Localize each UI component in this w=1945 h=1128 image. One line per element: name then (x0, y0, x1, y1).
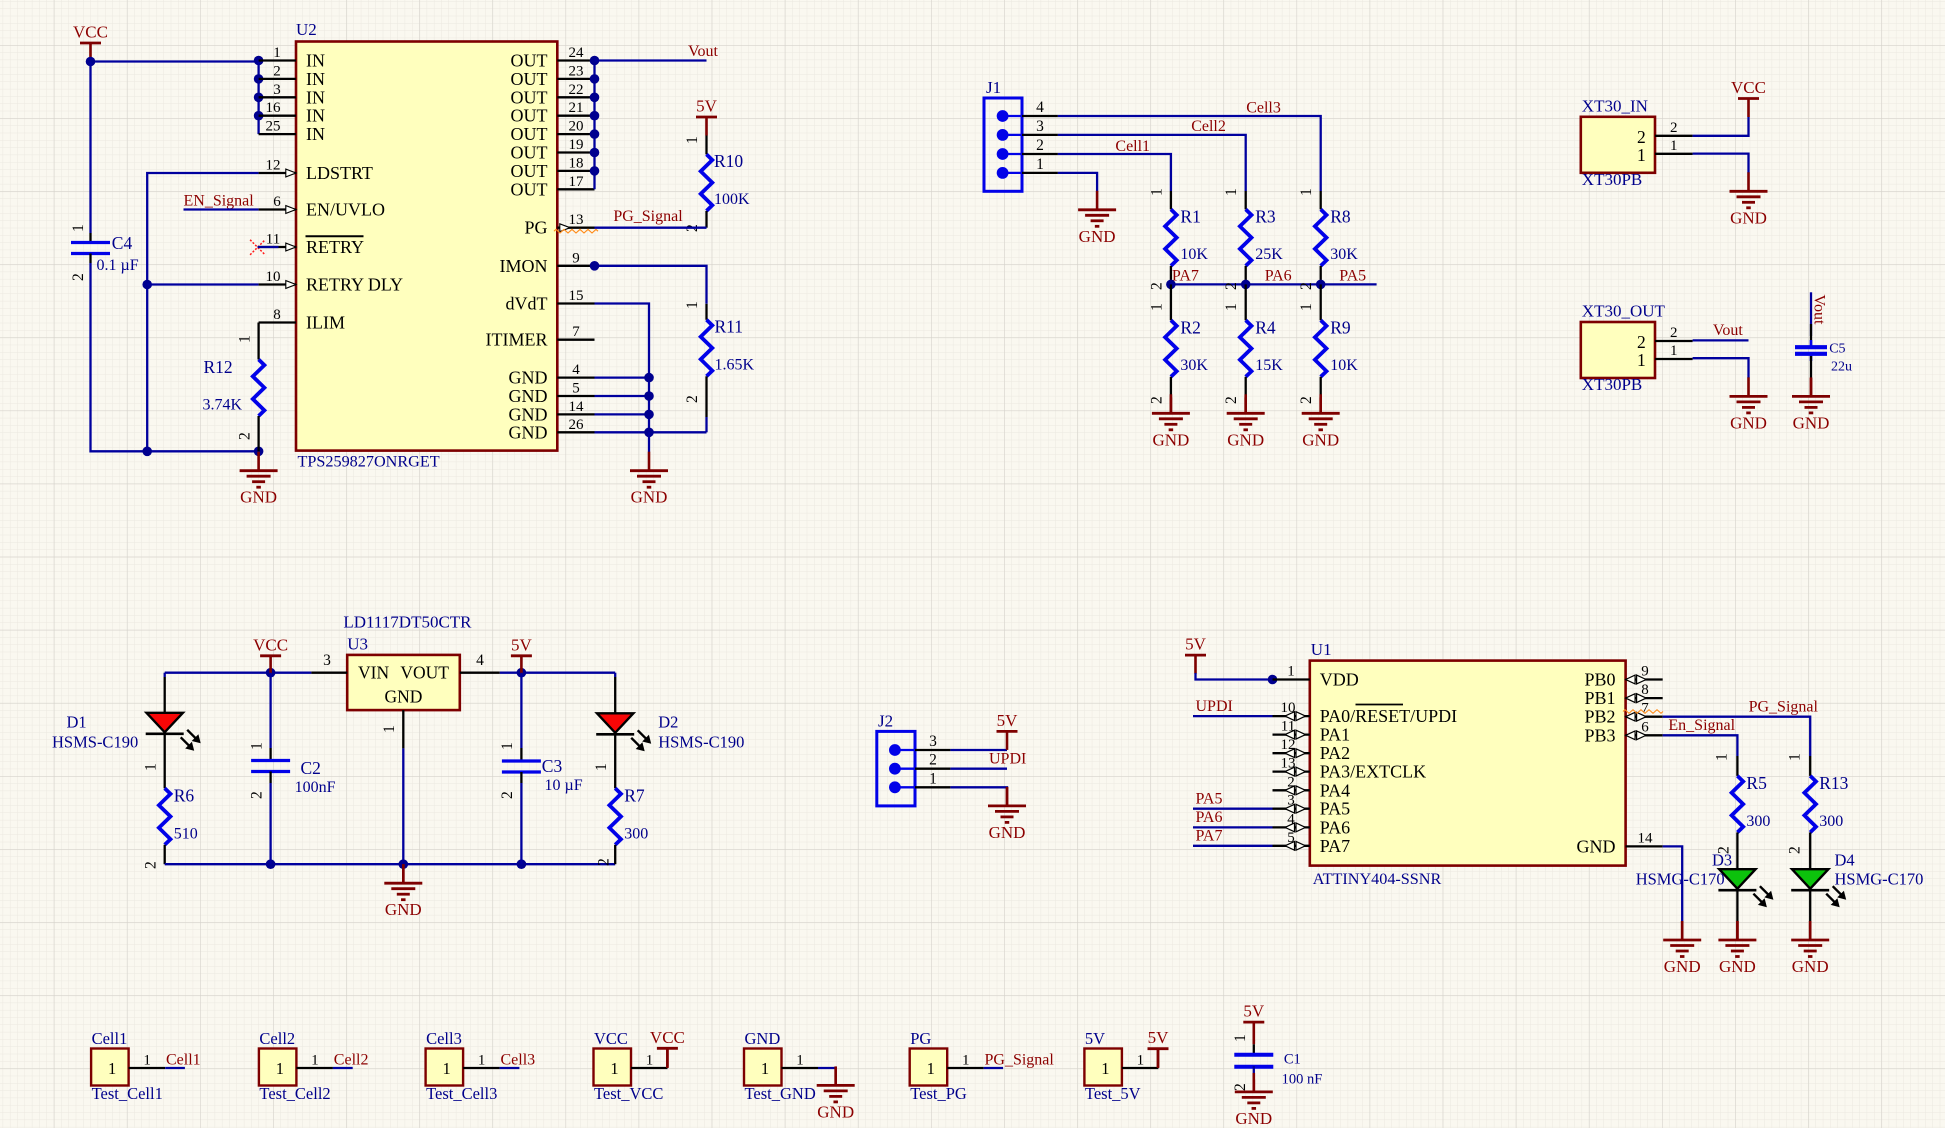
svg-text:1: 1 (1137, 1053, 1145, 1069)
svg-text:R2: R2 (1180, 317, 1200, 337)
svg-text:1: 1 (1670, 343, 1678, 359)
wire J2 pin3 to 5V (950, 749, 1007, 751)
svg-text:1: 1 (108, 1059, 116, 1078)
no connect X on RETRY (250, 240, 265, 255)
bidirectional arrow (1626, 694, 1647, 703)
svg-text:1: 1 (962, 1053, 970, 1069)
resistor R7 (614, 734, 616, 788)
bidirectional arrow (1626, 712, 1647, 721)
svg-text:2: 2 (1148, 396, 1165, 404)
svg-text:EN/UVLO: EN/UVLO (306, 200, 385, 220)
LED D3 (1718, 869, 1773, 907)
svg-text:2: 2 (1298, 396, 1315, 404)
svg-text:5V: 5V (696, 97, 718, 116)
svg-text:PB3: PB3 (1584, 725, 1615, 745)
svg-text:R8: R8 (1330, 206, 1351, 226)
svg-text:Test_Cell2: Test_Cell2 (259, 1084, 330, 1103)
svg-text:Cell1: Cell1 (92, 1029, 128, 1048)
U2 pin 6 EN/UVLO (259, 194, 385, 220)
svg-text:U2: U2 (296, 20, 317, 39)
svg-text:IN: IN (306, 124, 325, 144)
svg-text:1: 1 (796, 1053, 804, 1069)
svg-text:15K: 15K (1255, 357, 1283, 374)
svg-text:2: 2 (1787, 846, 1804, 854)
RESET overline (1356, 704, 1404, 706)
svg-text:PA5: PA5 (1196, 790, 1223, 807)
svg-text:6: 6 (1641, 719, 1649, 735)
svg-text:GND: GND (1730, 413, 1767, 432)
svg-text:R3: R3 (1255, 206, 1276, 226)
wire D4 to ground (1809, 890, 1811, 921)
U2 pin 12 LDSTRT (259, 158, 373, 184)
junction IN bus (254, 93, 264, 103)
svg-text:C4: C4 (112, 233, 133, 253)
svg-text:2: 2 (1637, 127, 1646, 147)
svg-text:1.65K: 1.65K (715, 357, 755, 374)
U2 pin 7 ITIMER (486, 324, 595, 350)
svg-text:PA3/EXTCLK: PA3/EXTCLK (1320, 762, 1426, 782)
U2 pin 2 IN (259, 63, 325, 89)
svg-text:2: 2 (1148, 282, 1165, 290)
svg-text:C5: C5 (1829, 341, 1845, 356)
wire PG_Signal (595, 227, 707, 229)
svg-text:PB1: PB1 (1584, 688, 1615, 708)
svg-text:2: 2 (1670, 325, 1678, 341)
ground at XT30_IN (1730, 172, 1768, 227)
U1 pin 4 PA6 (1273, 811, 1351, 837)
svg-text:2: 2 (1223, 282, 1240, 290)
U2 pin 13 PG (524, 212, 594, 238)
output arrow PG (560, 224, 570, 232)
svg-text:PA1: PA1 (1320, 725, 1350, 745)
svg-text:12: 12 (266, 158, 281, 174)
bidirectional arrow (1285, 749, 1306, 758)
svg-text:GND: GND (1577, 836, 1616, 856)
svg-text:PG_Signal: PG_Signal (1749, 699, 1819, 716)
wire D3 to ground (1736, 890, 1738, 921)
wire 5V to VDD (1196, 673, 1273, 680)
svg-text:HSMG-C170: HSMG-C170 (1636, 870, 1725, 889)
svg-text:2: 2 (1036, 137, 1044, 154)
svg-text:30K: 30K (1330, 246, 1358, 263)
svg-text:VIN: VIN (358, 663, 389, 683)
svg-text:10K: 10K (1330, 357, 1358, 374)
svg-text:LD1117DT50CTR: LD1117DT50CTR (343, 613, 472, 632)
svg-text:1: 1 (1148, 303, 1165, 311)
svg-text:1: 1 (70, 224, 87, 232)
junction IN bus (254, 111, 264, 121)
capacitor C3 (520, 673, 522, 748)
svg-text:LDSTRT: LDSTRT (306, 163, 373, 183)
svg-text:OUT: OUT (511, 179, 548, 199)
U2 pin 23 OUT (511, 63, 595, 89)
svg-text:PA4: PA4 (1320, 780, 1350, 800)
U2 pin 18 OUT (511, 155, 595, 181)
U2 pin 26 GND (509, 417, 595, 443)
connector J2 (877, 712, 951, 806)
svg-text:GND: GND (989, 823, 1026, 842)
svg-text:3: 3 (929, 733, 937, 750)
ground under U1 (1681, 921, 1684, 940)
svg-text:Cell3: Cell3 (426, 1029, 462, 1048)
U2 pin 20 OUT (511, 119, 595, 145)
ground under D3 (1736, 921, 1739, 940)
svg-text:PA6: PA6 (1196, 809, 1223, 826)
svg-text:17: 17 (569, 174, 585, 190)
junction bottom rail (399, 859, 409, 869)
junction PA7 (1166, 280, 1176, 290)
svg-text:1: 1 (684, 301, 701, 309)
ground under J2 (1006, 787, 1009, 806)
svg-text:1: 1 (143, 1053, 151, 1069)
wire IMON to R11 (595, 266, 707, 304)
bottom rail LDO (165, 863, 616, 865)
svg-text:2: 2 (273, 63, 281, 79)
svg-text:Test_GND: Test_GND (745, 1084, 816, 1103)
svg-text:PA7: PA7 (1196, 828, 1223, 845)
wire J2 pin2 UPDI (950, 768, 1007, 770)
svg-text:100 nF: 100 nF (1282, 1072, 1323, 1088)
svg-text:4: 4 (1036, 99, 1044, 116)
svg-text:Cell2: Cell2 (259, 1029, 295, 1048)
svg-text:TPS259827ONRGET: TPS259827ONRGET (298, 453, 440, 471)
svg-text:IMON: IMON (500, 256, 548, 276)
U2 pin 24 OUT (511, 45, 595, 71)
junction at VCC stem (86, 57, 96, 67)
svg-text:OUT: OUT (511, 51, 548, 71)
wire PA7-PA6-PA5 rail (1171, 283, 1377, 285)
U2 pin 8 ILIM (259, 307, 345, 333)
svg-text:IN: IN (306, 51, 325, 71)
U2 pin 25 IN (259, 119, 325, 145)
wire XT30_IN pin1 to GND (1693, 154, 1749, 173)
svg-text:R5: R5 (1746, 773, 1767, 793)
svg-text:Test_PG: Test_PG (910, 1084, 967, 1103)
wire J2 pin1 to GND (950, 787, 1007, 789)
svg-text:RETRY DLY: RETRY DLY (306, 275, 403, 295)
svg-text:2: 2 (70, 273, 87, 281)
svg-text:VOUT: VOUT (400, 663, 449, 683)
resistor R8 (1320, 191, 1322, 209)
U1 pin 5 PA7 (1273, 830, 1351, 856)
svg-text:22u: 22u (1831, 359, 1852, 374)
svg-text:U1: U1 (1311, 640, 1332, 659)
svg-text:GND: GND (1302, 430, 1339, 449)
resistor R11 (705, 304, 707, 320)
svg-text:J1: J1 (986, 78, 1001, 97)
svg-text:XT30_OUT: XT30_OUT (1582, 302, 1666, 321)
svg-text:1: 1 (442, 1059, 450, 1078)
svg-text:U3: U3 (347, 635, 368, 654)
resistor R12 (257, 323, 259, 360)
junction RETRY DLY (142, 280, 152, 290)
wire GND pin 14 (595, 413, 650, 415)
svg-text:2: 2 (1637, 332, 1646, 352)
wire Cell1 (1058, 154, 1171, 191)
svg-text:dVdT: dVdT (506, 294, 548, 314)
U1 pin 6 PB3 (1584, 719, 1662, 745)
junction VDD (1268, 675, 1278, 685)
junction bottom rail (266, 859, 276, 869)
wire GND pin 4 (595, 376, 650, 378)
svg-text:2: 2 (1223, 396, 1240, 404)
LED D1 (164, 673, 166, 677)
bidirectional arrow (1285, 712, 1306, 721)
svg-text:VCC: VCC (650, 1028, 685, 1047)
svg-text:XT30PB: XT30PB (1582, 170, 1642, 189)
resistor R13 (1809, 756, 1811, 776)
svg-text:2: 2 (499, 791, 516, 799)
svg-text:PB2: PB2 (1584, 707, 1615, 727)
svg-text:Vout: Vout (1811, 295, 1828, 325)
bidirectional arrow (1285, 767, 1306, 776)
svg-text:19: 19 (569, 137, 584, 153)
svg-text:HSMS-C190: HSMS-C190 (658, 733, 744, 752)
svg-text:24: 24 (569, 45, 585, 61)
svg-text:C2: C2 (301, 758, 321, 778)
svg-text:1: 1 (1036, 156, 1044, 173)
svg-text:9: 9 (572, 250, 580, 266)
svg-text:5V: 5V (1185, 635, 1207, 654)
OUT bus vertical (593, 61, 595, 190)
svg-text:GND: GND (745, 1029, 781, 1048)
svg-text:1: 1 (1714, 753, 1731, 761)
svg-text:IN: IN (306, 87, 325, 107)
svg-text:ITIMER: ITIMER (486, 330, 548, 350)
test point Test_Cell3 (426, 1029, 500, 1103)
U1 pin 12 PA2 (1273, 737, 1351, 763)
test point Test_Cell2 (259, 1029, 333, 1103)
svg-text:Test_Cell1: Test_Cell1 (92, 1084, 163, 1103)
junction OUT bus (590, 56, 600, 66)
wire + net label Cell3 (500, 1067, 520, 1069)
svg-text:22: 22 (569, 82, 584, 98)
svg-text:GND: GND (509, 386, 548, 406)
svg-text:25: 25 (266, 119, 281, 135)
U2 pin 1 IN (259, 45, 325, 71)
svg-text:300: 300 (1819, 813, 1843, 830)
connector XT30_OUT (1581, 302, 1693, 395)
svg-text:ILIM: ILIM (306, 313, 345, 333)
svg-text:2: 2 (684, 395, 701, 403)
svg-text:1: 1 (276, 1059, 284, 1078)
power flag VCC at XT30_IN (1731, 78, 1766, 117)
wire En_Signal to R5 (1663, 735, 1738, 756)
svg-text:10K: 10K (1180, 246, 1208, 263)
LED D4 (1791, 869, 1846, 907)
power flag 5V at U3 (511, 635, 533, 674)
resistor R9 (1320, 284, 1322, 320)
svg-text:GND: GND (1227, 430, 1264, 449)
wire UPDI to PA0 (1193, 715, 1273, 717)
wire U3 GND down (402, 748, 404, 864)
svg-text:PA5: PA5 (1339, 268, 1366, 285)
IC U1 ATTINY404-SSNR body (1310, 661, 1626, 866)
resistor R6 (164, 734, 166, 789)
bidirectional arrow (1285, 786, 1306, 795)
svg-text:OUT: OUT (511, 161, 548, 181)
input arrow (286, 169, 296, 177)
U2 pin 15 dVdT (506, 288, 595, 314)
svg-text:OUT: OUT (511, 106, 548, 126)
test point Test_PG (910, 1029, 984, 1103)
svg-text:UPDI: UPDI (989, 751, 1026, 768)
svg-text:1: 1 (1223, 303, 1240, 311)
U3 pin 3 (311, 672, 347, 674)
svg-text:3.74K: 3.74K (203, 397, 243, 414)
U1 pin 13 PA3/EXTCLK (1273, 756, 1427, 782)
svg-text:PG_Signal: PG_Signal (985, 1052, 1055, 1069)
connector J1 (984, 78, 1058, 191)
junction PA6 (1241, 280, 1251, 290)
svg-text:XT30PB: XT30PB (1582, 375, 1642, 394)
svg-text:HSMS-C190: HSMS-C190 (52, 733, 138, 752)
svg-text:XT30_IN: XT30_IN (1582, 96, 1648, 115)
svg-text:VDD: VDD (1320, 670, 1359, 690)
wire PA7 (1193, 845, 1273, 847)
U2 pin 22 OUT (511, 82, 595, 108)
ground under C1 (1253, 1080, 1256, 1092)
ground at XT30_OUT (1730, 377, 1768, 432)
svg-text:UPDI: UPDI (1196, 698, 1233, 715)
svg-text:VCC: VCC (1731, 78, 1766, 97)
power flag VCC at test point (666, 1048, 669, 1068)
svg-text:En_Signal: En_Signal (1668, 717, 1735, 734)
svg-text:18: 18 (569, 155, 584, 171)
svg-text:EN_Signal: EN_Signal (184, 192, 255, 209)
U2 pin 9 IMON (500, 250, 595, 276)
svg-text:25K: 25K (1255, 246, 1283, 263)
svg-text:Vout: Vout (688, 43, 718, 60)
U1 pin 9 PB0 (1584, 664, 1662, 690)
U3 pin 4 (460, 672, 500, 674)
ground at Test_GND (834, 1068, 837, 1085)
U1 pin 1 VDD (1273, 664, 1359, 690)
wire + net label Cell1 (165, 1067, 185, 1069)
svg-text:R12: R12 (204, 357, 233, 377)
wire Cell3 (1058, 116, 1321, 191)
svg-text:1: 1 (1670, 138, 1678, 154)
ground under D4 (1809, 921, 1812, 940)
capacitor C1 (1253, 1040, 1256, 1044)
svg-text:Cell1: Cell1 (166, 1052, 201, 1069)
wire RETRY DLY (147, 283, 258, 285)
svg-text:13: 13 (569, 212, 584, 228)
svg-text:PB0: PB0 (1584, 670, 1615, 690)
svg-text:15: 15 (569, 288, 584, 304)
svg-text:1: 1 (1232, 1034, 1249, 1042)
svg-text:R10: R10 (714, 151, 743, 171)
capacitor C4 (71, 243, 110, 254)
svg-text:Cell3: Cell3 (501, 1052, 536, 1069)
svg-text:100nF: 100nF (295, 779, 336, 796)
compile marker on PG pin (554, 229, 598, 233)
test point Test_GND (744, 1029, 818, 1103)
svg-text:VCC: VCC (594, 1029, 628, 1048)
svg-text:R13: R13 (1819, 773, 1848, 793)
U2 pin 19 OUT (511, 137, 595, 163)
svg-text:1: 1 (478, 1053, 486, 1069)
wire U1 GND (1663, 846, 1683, 921)
svg-text:PG: PG (910, 1029, 931, 1048)
svg-text:7: 7 (1641, 701, 1649, 717)
U2 pin 10 RETRY DLY (259, 269, 403, 295)
svg-text:5V: 5V (1243, 1002, 1265, 1021)
wire GND rail bottom (595, 431, 707, 433)
wire XT30_OUT pin2 Vout (1693, 339, 1749, 341)
wire J1 pin1 to ground (1058, 173, 1097, 192)
svg-text:8: 8 (273, 307, 281, 323)
junction OUT bus (590, 148, 600, 158)
svg-text:GND: GND (817, 1102, 854, 1121)
resistor R4 (1245, 284, 1247, 320)
junction bottom rail (142, 447, 152, 457)
U1 pin 10 PA0/RESET/UPDI (1273, 700, 1458, 726)
svg-text:5V: 5V (511, 635, 533, 654)
junction OUT bus (590, 129, 600, 139)
svg-text:Cell2: Cell2 (1191, 118, 1226, 135)
svg-text:8: 8 (1641, 682, 1649, 698)
wire dVdT to GND bus (595, 304, 650, 433)
svg-text:1: 1 (311, 1053, 319, 1069)
wire + net label Cell2 (333, 1067, 353, 1069)
svg-text:26: 26 (569, 417, 585, 433)
svg-text:PG_Signal: PG_Signal (613, 208, 683, 225)
svg-text:0.1 µF: 0.1 µF (97, 257, 139, 274)
svg-text:1: 1 (929, 770, 937, 787)
resistor R2 (1170, 284, 1172, 320)
svg-text:1: 1 (1637, 145, 1646, 165)
U3 pin 1 GND (402, 710, 404, 748)
wire VCC to U2 IN bus (91, 60, 259, 62)
junction OUT bus (590, 74, 600, 84)
svg-text:D3: D3 (1712, 851, 1732, 870)
ground under R12 (240, 452, 278, 507)
svg-text:300: 300 (624, 825, 648, 842)
svg-text:R9: R9 (1330, 317, 1351, 337)
svg-text:GND: GND (240, 488, 277, 507)
wire Vout from OUT bus (595, 59, 707, 61)
svg-text:1: 1 (927, 1059, 935, 1078)
U1 pin 2 PA4 (1273, 774, 1351, 800)
junction OUT bus (590, 166, 600, 176)
svg-text:6: 6 (273, 194, 281, 210)
junction at IN pin 1 (254, 56, 264, 66)
resistor R5 (1736, 756, 1738, 776)
svg-text:1: 1 (1787, 753, 1804, 761)
svg-text:23: 23 (569, 63, 584, 79)
junction OUT bus (590, 93, 600, 103)
svg-text:PA7: PA7 (1172, 268, 1199, 285)
svg-text:R6: R6 (174, 785, 195, 805)
test point Test_5V (1084, 1029, 1158, 1103)
input arrow (286, 281, 296, 289)
wire EN_Signal (184, 208, 259, 210)
power flag 5V at C1 (1243, 1002, 1265, 1041)
svg-text:510: 510 (174, 825, 198, 842)
bidirectional arrow (1285, 730, 1306, 739)
wire + net label PG_Signal (984, 1067, 1003, 1069)
svg-text:5: 5 (572, 381, 580, 397)
test point Test_Cell1 (91, 1029, 165, 1103)
test point Test_VCC (594, 1029, 668, 1103)
capacitor C2 (269, 673, 271, 748)
U1 pin 11 PA1 (1273, 719, 1351, 745)
wire PA5 (1193, 808, 1273, 810)
U2 pin 4 GND (509, 362, 595, 388)
capacitor C5 (1810, 324, 1812, 347)
svg-text:J2: J2 (878, 712, 893, 731)
